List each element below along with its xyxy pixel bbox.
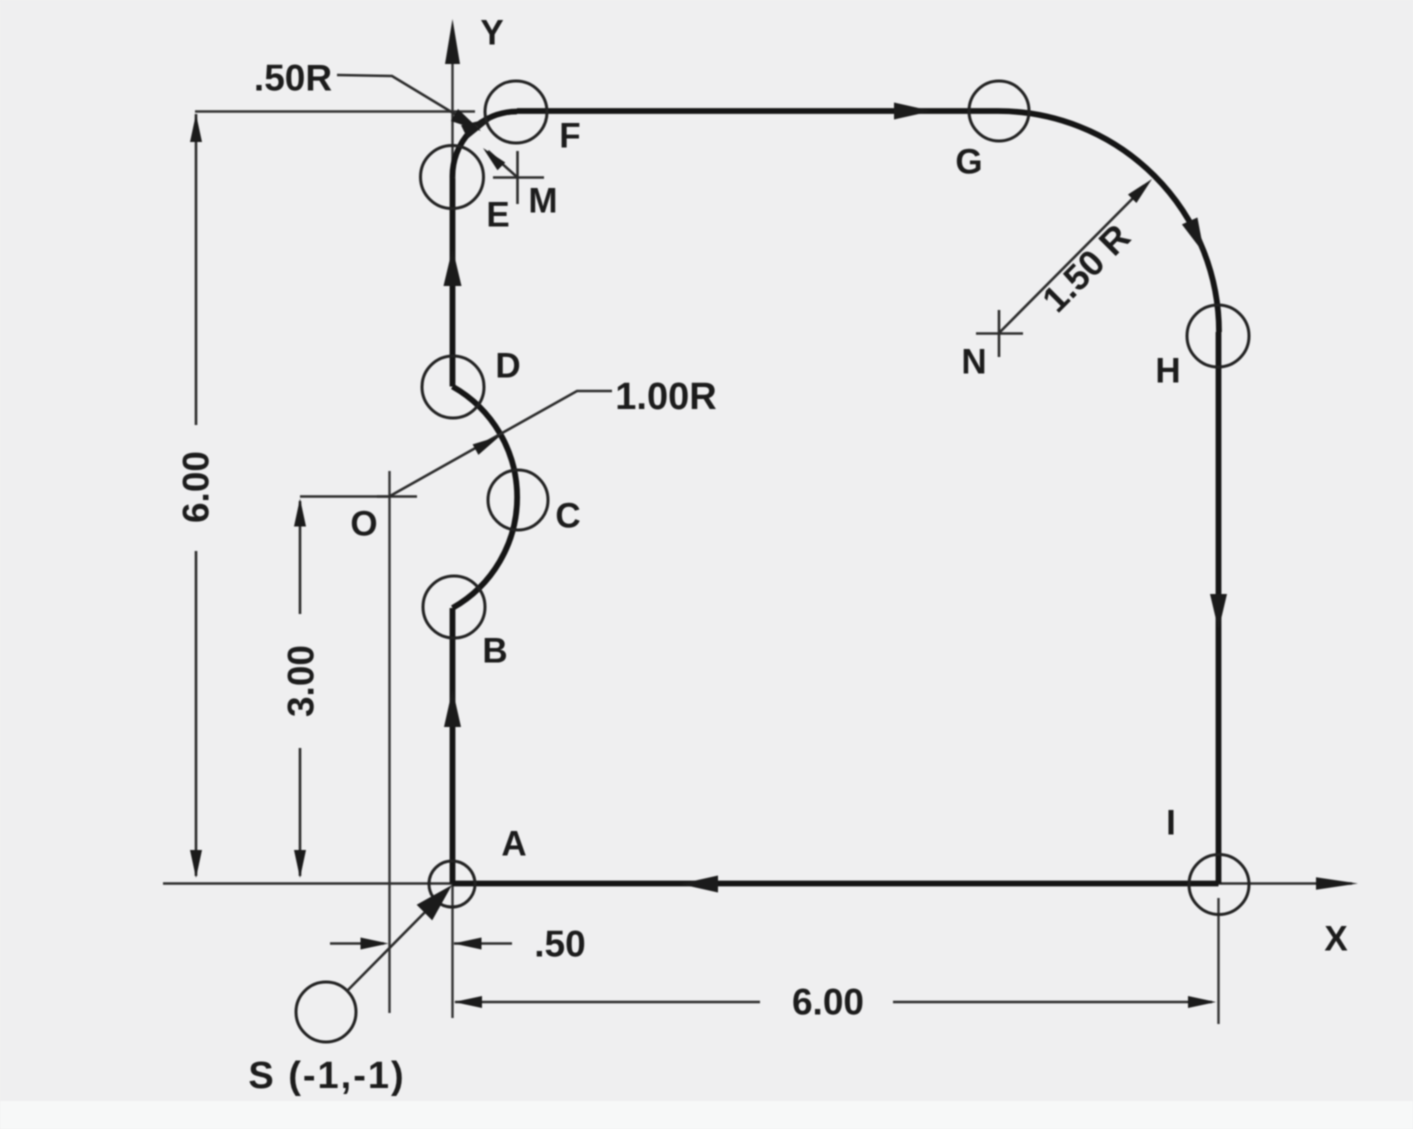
path arrow on fillet E-F	[461, 111, 497, 139]
center cross M	[493, 151, 544, 204]
svg-text:G: G	[955, 143, 982, 182]
wire: top extension line at y=6.00	[195, 110, 475, 112]
radius line 1.50R from N to arc	[999, 175, 1156, 333]
svg-text:E: E	[486, 196, 509, 235]
dimension 6.00 vertical left	[190, 114, 202, 878]
svg-text:I: I	[1166, 804, 1176, 843]
svg-text:.50: .50	[534, 924, 585, 965]
svg-text:A: A	[501, 825, 526, 864]
point circle C	[488, 470, 548, 530]
svg-text:X: X	[1324, 920, 1348, 959]
svg-text:M: M	[528, 182, 557, 221]
point circle A	[429, 861, 475, 907]
path arrow D-E	[444, 248, 462, 286]
point circle H	[1187, 305, 1249, 367]
path segment F-G	[517, 108, 998, 114]
path arrow I-A	[680, 876, 718, 893]
path arc G-H (1.50R)	[998, 111, 1219, 332]
path arrow on arc G-H	[1182, 217, 1212, 257]
path segment A-B	[450, 608, 456, 884]
leader from S to A	[347, 877, 460, 991]
svg-text:6.00: 6.00	[176, 451, 217, 523]
radius arrow from M to fillet	[479, 144, 517, 177]
wire: extension line at O x (down to .50 dim)	[388, 471, 390, 1013]
svg-text:D: D	[495, 347, 520, 386]
point circle B	[423, 576, 485, 638]
svg-text:Y: Y	[480, 14, 503, 53]
wire: extension line below I	[1217, 898, 1219, 1024]
leader .50R	[337, 75, 485, 137]
path fillet E-F (.50R)	[452, 111, 517, 178]
point circle D	[422, 356, 484, 418]
path arrow F-G	[894, 103, 932, 120]
Y axis	[445, 19, 460, 180]
center cross O	[377, 495, 417, 498]
svg-text:1.00R: 1.00R	[615, 376, 716, 418]
path segment D-E	[450, 178, 456, 387]
svg-text:B: B	[482, 632, 507, 671]
center cross N	[976, 310, 1023, 357]
path arc B-C-D (1.00R)	[453, 387, 518, 609]
svg-text:3.00: 3.00	[281, 645, 322, 717]
svg-text:H: H	[1155, 352, 1180, 391]
point circle G	[969, 81, 1029, 141]
svg-text:C: C	[555, 497, 580, 536]
svg-text:O: O	[350, 505, 377, 544]
svg-text:6.00: 6.00	[792, 982, 864, 1023]
wire: extension line below A	[451, 884, 453, 1018]
dimension 6.00 bottom	[454, 996, 1216, 1008]
point circle I	[1189, 855, 1249, 915]
dimension .50 horizontal	[330, 938, 512, 950]
leader 1.00R	[390, 391, 612, 496]
bottom light strip	[0, 1101, 1413, 1129]
point circle S	[296, 982, 356, 1042]
path arrow H-I	[1210, 594, 1227, 630]
point circle E	[421, 146, 484, 209]
path segment I-A	[453, 881, 1219, 887]
X axis	[163, 877, 1358, 890]
path segment H-I	[1216, 332, 1222, 884]
svg-text:.50R: .50R	[254, 58, 332, 99]
svg-text:N: N	[961, 343, 986, 382]
svg-text:F: F	[559, 117, 580, 156]
dimension 3.00 vertical	[294, 497, 388, 879]
path arrow A-B	[444, 689, 461, 727]
point circle F	[485, 81, 547, 143]
svg-text:S (-1,-1): S (-1,-1)	[248, 1055, 405, 1097]
